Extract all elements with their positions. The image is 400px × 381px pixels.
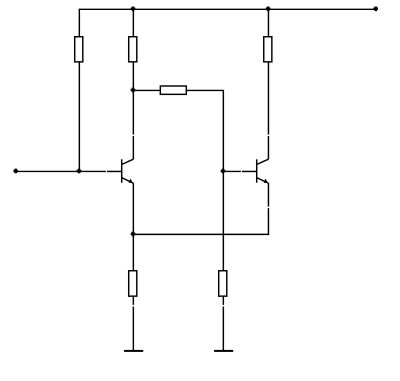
node junction input/R1 xyxy=(77,169,82,174)
node junction rail/R3 xyxy=(266,7,271,12)
transistor Q1 emitter arrow xyxy=(129,179,133,184)
transistor Q1 collector diagonal xyxy=(122,159,134,164)
wire R6 bottom pin stub xyxy=(222,296,224,305)
wire R5 bottom pin stub xyxy=(132,296,134,305)
wire R6 to ground xyxy=(222,307,224,351)
ground left xyxy=(124,350,143,352)
wire R1 bottom to input node xyxy=(78,62,80,172)
wire Q2 collector pin stub xyxy=(267,136,269,159)
transistor Q2 collector diagonal xyxy=(257,159,269,164)
node A junction R2/R4/Q1 collector xyxy=(131,88,136,93)
wire Q1 base pin stub xyxy=(107,170,122,172)
wire R5 to ground xyxy=(132,307,134,351)
wire Q2 base pin stub xyxy=(242,170,257,172)
node B junction emitter/R5 xyxy=(131,232,136,237)
wire top rail to R2 xyxy=(132,9,134,37)
resistor R3 xyxy=(264,37,272,62)
wire top rail with left drop to R1 xyxy=(79,9,376,37)
node junction rail/R2 xyxy=(131,7,136,12)
resistor R6 xyxy=(219,271,227,296)
wire node B to R5 xyxy=(132,234,134,270)
resistor R2 xyxy=(129,37,137,62)
wire R2 bottom to node A xyxy=(132,62,134,91)
transistor Q2 emitter diagonal xyxy=(257,178,269,184)
resistor R1 xyxy=(75,37,83,62)
node input terminal xyxy=(13,169,18,174)
wire R4 right to vertical drop down to R6 xyxy=(186,90,223,270)
transistor Q1 base bar xyxy=(121,159,123,182)
transistor Q2 emitter arrow xyxy=(264,179,268,184)
wire node A to R4 xyxy=(133,89,160,91)
resistor R4 xyxy=(160,86,186,94)
ground right xyxy=(214,350,233,352)
wire top rail to R3 xyxy=(267,9,269,37)
wire Q2 base from tap xyxy=(223,170,241,172)
wire input left segment xyxy=(16,170,106,172)
wire node A down to Q1 collector xyxy=(132,90,134,134)
node rail right terminal xyxy=(373,7,378,12)
wire Q1 collector pin stub xyxy=(132,136,134,159)
resistor R5 xyxy=(129,271,137,296)
wire R3 bottom to Q2 collector xyxy=(267,62,269,135)
transistor Q1 emitter diagonal xyxy=(122,178,134,184)
transistor Q2 base bar xyxy=(256,159,258,182)
wire Q1 emitter down to node B xyxy=(132,183,134,234)
wire Q2 emitter pin stub xyxy=(267,183,269,206)
node junction Q2 base tap xyxy=(221,169,226,174)
wire emitter rail Q2 to node B xyxy=(133,208,268,234)
